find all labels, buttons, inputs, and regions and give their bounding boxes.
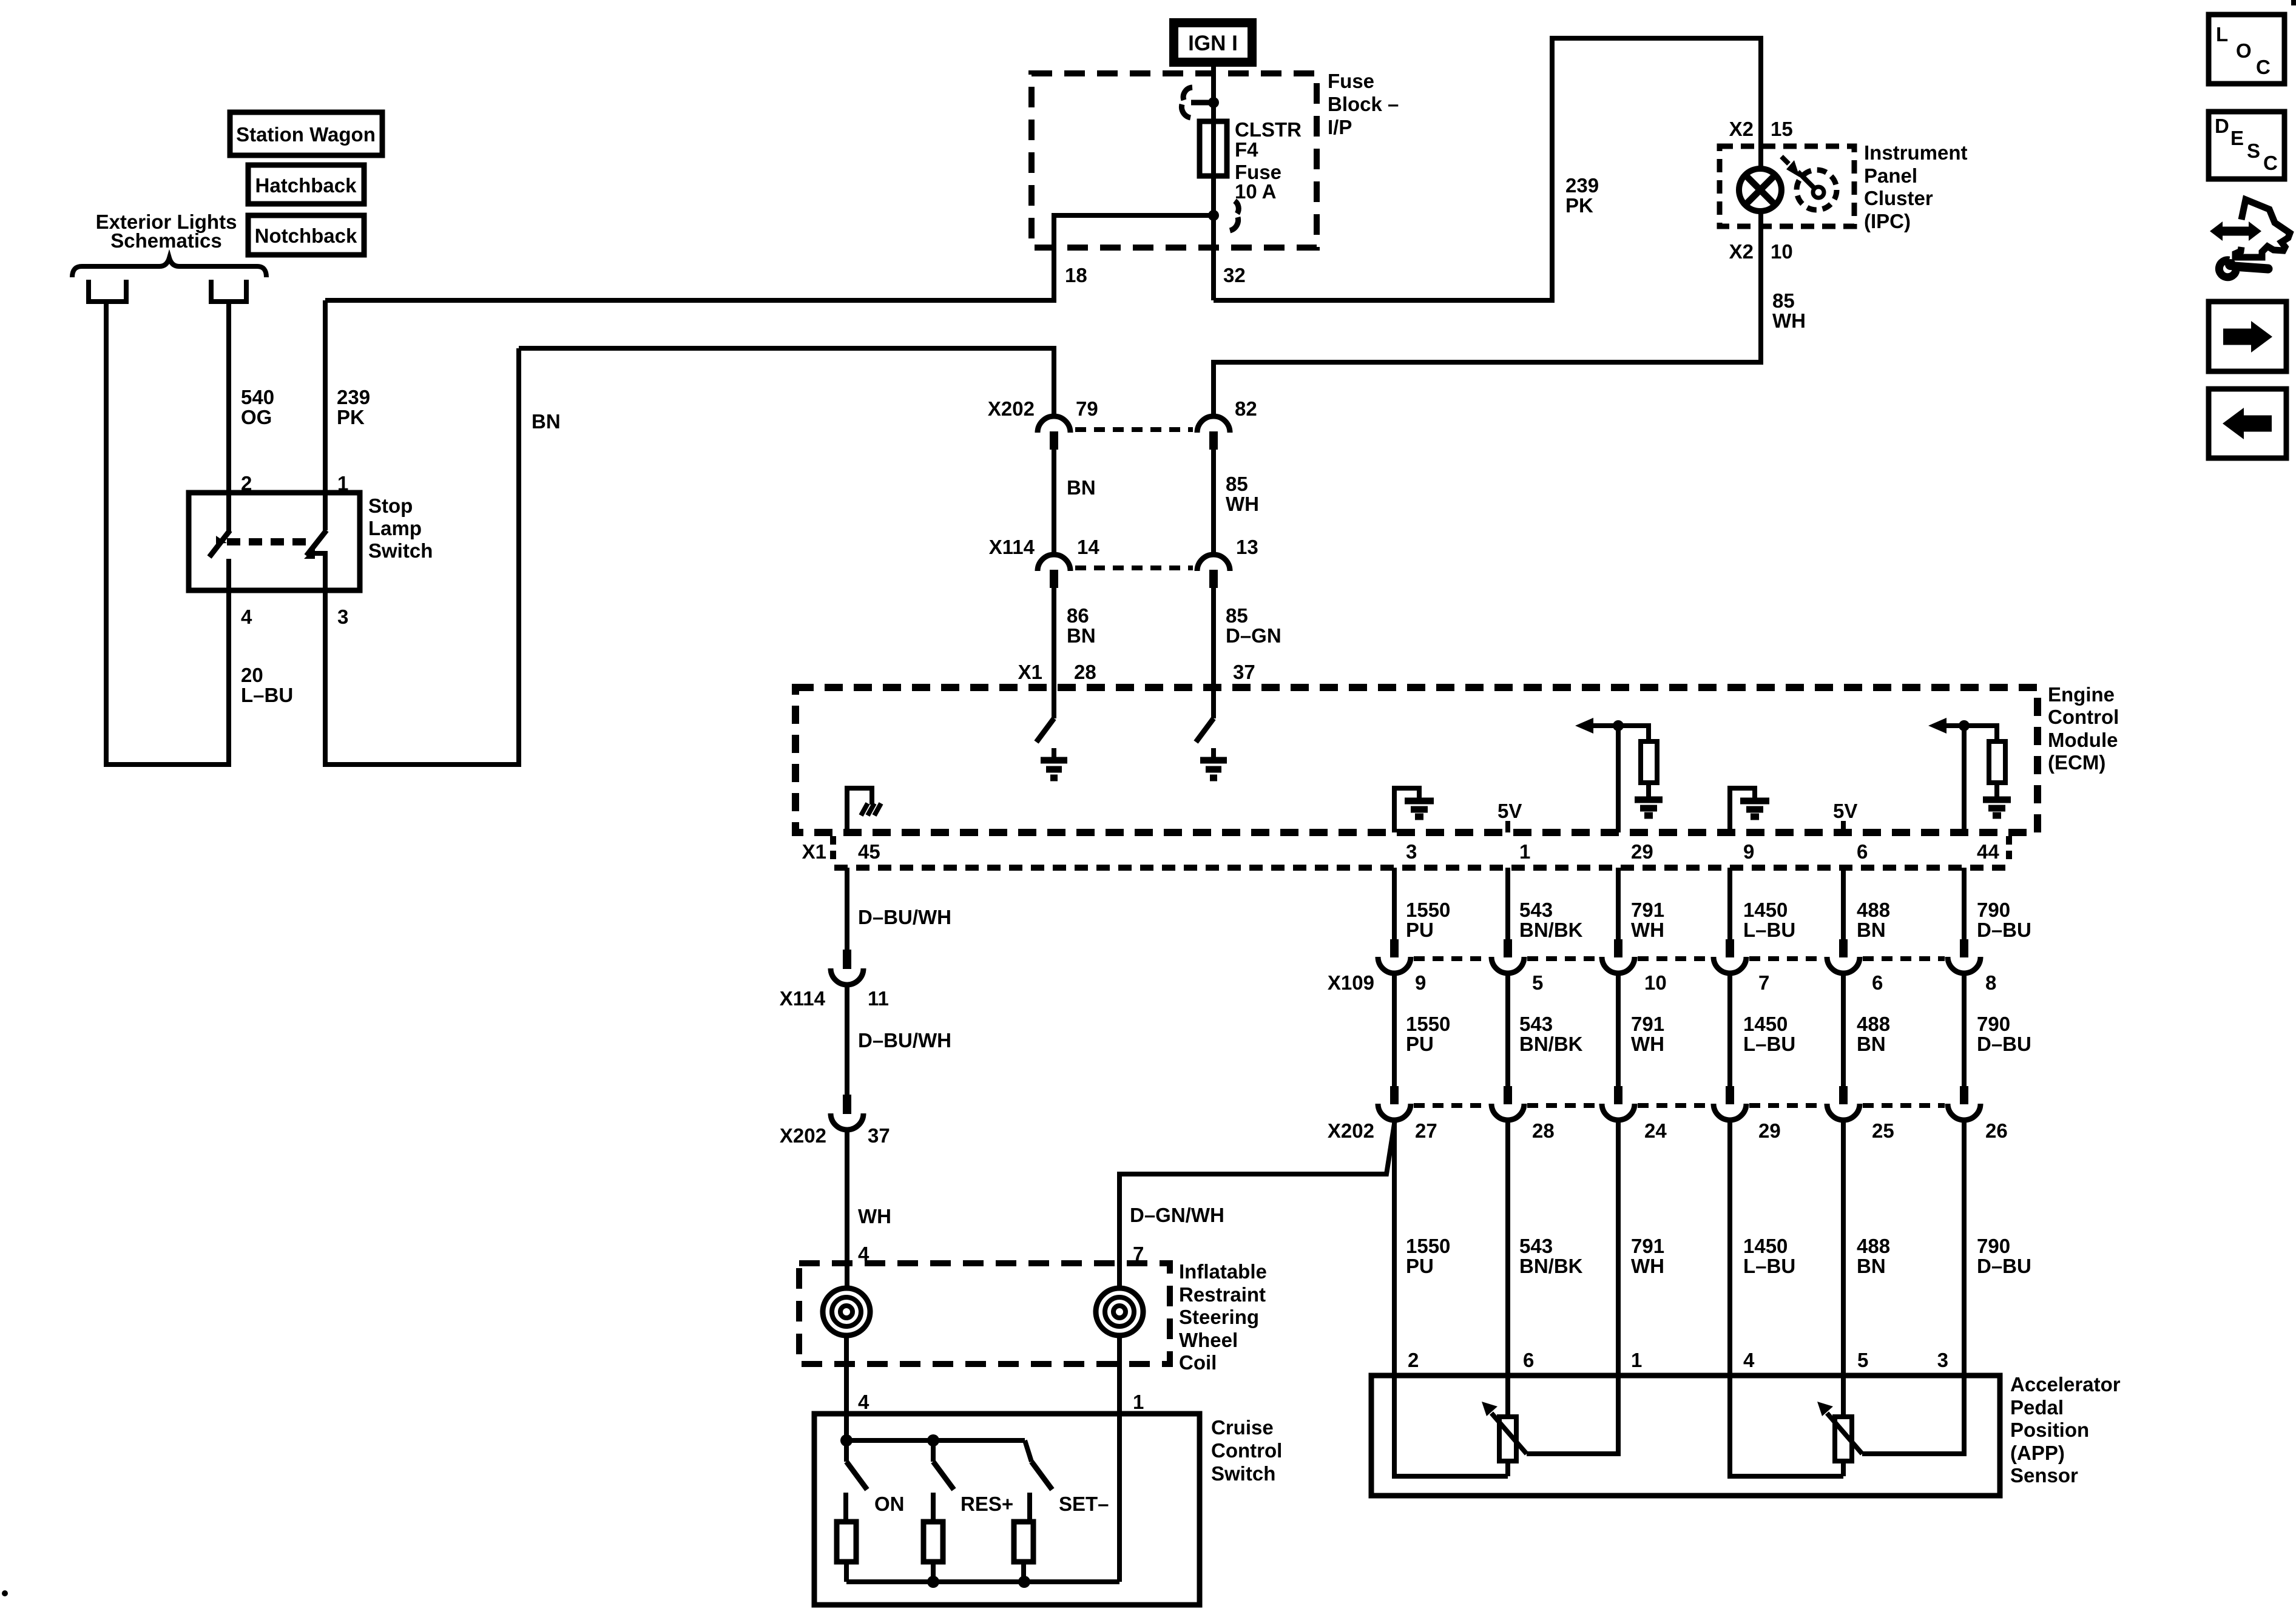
svg-text:D–GN: D–GN — [1226, 624, 1281, 647]
ground (pin 37 sense) — [1211, 748, 1216, 760]
svg-text:791: 791 — [1631, 1235, 1664, 1257]
wire 790 D-BU X109-8 to X202-26 — [1962, 973, 1967, 1095]
svg-text:S: S — [2247, 140, 2260, 162]
fuse block I/P dashed box — [1032, 73, 1317, 248]
svg-text:29: 29 — [1631, 840, 1653, 863]
wire fuse to pin 18 — [325, 215, 1214, 300]
svg-text:BN: BN — [1857, 919, 1886, 941]
svg-text:D–BU: D–BU — [1977, 919, 2031, 941]
dashed link X114 14-13 — [1075, 565, 1193, 570]
coil spiral right — [1096, 1288, 1143, 1335]
ECM internal switch at pin 28 — [1036, 718, 1054, 742]
junction dot — [927, 1434, 939, 1447]
stop lamp switch wedge right — [304, 548, 315, 559]
svg-text:28: 28 — [1532, 1119, 1555, 1142]
LOC icon box — [2209, 15, 2284, 84]
wire 791 WH X1-29 to X109-10 — [1616, 868, 1621, 948]
wire D-BU/WH X114-11 to X202-37 — [845, 985, 849, 1095]
gauge pointer arrow — [1781, 157, 1789, 164]
wire 791 WH X109-10 to X202-24 — [1616, 973, 1621, 1095]
svg-text:1550: 1550 — [1406, 1013, 1450, 1035]
svg-text:Restraint: Restraint — [1179, 1283, 1266, 1306]
junction dot — [927, 1576, 939, 1588]
svg-text:Panel: Panel — [1864, 164, 1917, 187]
wire IPC X2 10 to X202 pin 82 — [1214, 211, 1761, 419]
fuse clip bottom — [1235, 201, 1238, 214]
ground (pin 29) — [1635, 800, 1663, 815]
svg-text:Schematics: Schematics — [110, 229, 221, 252]
svg-text:Block –: Block – — [1328, 93, 1399, 115]
forward arrow icon box — [2209, 302, 2286, 371]
accelerator pedal position sensor box — [1371, 1376, 2000, 1496]
box Notchback — [248, 215, 364, 255]
svg-text:3: 3 — [337, 606, 348, 628]
wire 543 BN/BK X1-1 to X109-5 — [1505, 868, 1510, 948]
svg-text:BN: BN — [1857, 1033, 1886, 1055]
svg-text:ON: ON — [874, 1493, 905, 1515]
svg-text:WH: WH — [858, 1205, 891, 1227]
wire 20 L-BU loop (stop lamp pin 4 to exterior lights) — [106, 302, 229, 765]
svg-text:82: 82 — [1235, 397, 1257, 420]
ECM pin 9 wire to ground — [1730, 788, 1755, 832]
svg-text:540: 540 — [241, 386, 274, 408]
svg-text:Module: Module — [2048, 729, 2118, 751]
connector X202 pin 28 — [1504, 1086, 1512, 1104]
svg-text:3: 3 — [1406, 840, 1417, 863]
svg-text:1550: 1550 — [1406, 1235, 1450, 1257]
svg-text:44: 44 — [1977, 840, 1999, 863]
svg-text:79: 79 — [1076, 397, 1098, 420]
svg-text:791: 791 — [1631, 899, 1664, 921]
svg-text:6: 6 — [1523, 1349, 1534, 1371]
svg-text:X202: X202 — [1328, 1119, 1374, 1142]
svg-text:L–BU: L–BU — [1743, 1033, 1795, 1055]
stop lamp switch blade left — [209, 530, 230, 557]
connector X202 pin 27 — [1390, 1086, 1399, 1104]
svg-text:WH: WH — [1631, 1255, 1664, 1277]
svg-text:D–BU/WH: D–BU/WH — [858, 1029, 951, 1052]
svg-text:X114: X114 — [989, 536, 1035, 558]
connector X114 pin 14 (dome + pin) — [1038, 555, 1070, 571]
svg-text:10 A: 10 A — [1235, 180, 1276, 203]
wire 1450 L-BU X109-7 to X202-29 — [1727, 973, 1732, 1095]
svg-text:Sensor: Sensor — [2010, 1464, 2078, 1487]
svg-text:X2: X2 — [1729, 240, 1754, 263]
svg-text:X109: X109 — [1328, 971, 1374, 994]
svg-text:D–BU/WH: D–BU/WH — [858, 906, 951, 928]
cruise internal bottom bus — [846, 1579, 1119, 1584]
page artifact mark top right — [2291, 0, 2296, 5]
connector X202 pin 25 — [1839, 1086, 1848, 1104]
ground (pin 28 sense) — [1052, 748, 1056, 760]
svg-text:29: 29 — [1758, 1119, 1781, 1142]
connector X202 pin 26 — [1960, 1086, 1968, 1104]
svg-text:6: 6 — [1857, 840, 1868, 863]
svg-text:RES+: RES+ — [961, 1493, 1013, 1515]
svg-text:Engine: Engine — [2048, 683, 2115, 706]
wire 790 D-BU X202-26 to APP pin 3 — [1962, 1120, 1967, 1376]
svg-text:5V: 5V — [1497, 800, 1522, 822]
svg-text:Pedal: Pedal — [2010, 1396, 2064, 1419]
svg-text:85: 85 — [1772, 289, 1795, 312]
svg-text:86: 86 — [1067, 604, 1089, 627]
svg-text:Control: Control — [2048, 706, 2119, 728]
stop lamp switch box — [189, 493, 360, 590]
ground (pin 44) — [1983, 800, 2011, 815]
svg-text:790: 790 — [1977, 1013, 2010, 1035]
diagnostic tool icon (double arrow, outline, wrench) — [2221, 227, 2250, 236]
svg-text:BN: BN — [1067, 624, 1096, 647]
svg-text:WH: WH — [1772, 309, 1806, 332]
svg-text:18: 18 — [1065, 264, 1087, 286]
svg-text:85: 85 — [1226, 604, 1248, 627]
svg-text:Fuse: Fuse — [1328, 70, 1374, 92]
svg-text:PU: PU — [1406, 919, 1434, 941]
svg-text:13: 13 — [1236, 536, 1258, 558]
svg-text:10: 10 — [1771, 240, 1793, 263]
svg-text:L–BU: L–BU — [1743, 919, 1795, 941]
svg-text:488: 488 — [1857, 899, 1890, 921]
APP pot 2 feed wires — [1730, 1376, 1843, 1476]
svg-text:24: 24 — [1644, 1119, 1667, 1142]
svg-text:L–BU: L–BU — [241, 684, 293, 706]
wire 543 BN/BK X202-28 to APP pin 6 — [1505, 1120, 1510, 1376]
svg-text:1450: 1450 — [1743, 1235, 1788, 1257]
svg-text:(ECM): (ECM) — [2048, 751, 2105, 774]
branch wire X202-27 to cruise circuit (D-GN/WH) — [1119, 1120, 1395, 1289]
svg-text:1: 1 — [1133, 1391, 1144, 1413]
svg-text:Inflatable: Inflatable — [1179, 1260, 1267, 1283]
stop lamp switch contact right — [309, 553, 325, 590]
svg-text:5: 5 — [1857, 1349, 1868, 1371]
ECM pin 6 5V supply — [1841, 821, 1846, 832]
cruise internal top bus — [846, 1438, 1025, 1443]
svg-text:WH: WH — [1631, 1033, 1664, 1055]
svg-text:BN/BK: BN/BK — [1519, 1033, 1583, 1055]
svg-text:X1: X1 — [802, 840, 826, 863]
svg-text:Cruise: Cruise — [1211, 1416, 1274, 1439]
resistor RES+ — [923, 1522, 943, 1562]
switch ON — [844, 1440, 849, 1462]
page artifact dot bottom left — [2, 1590, 8, 1596]
wire stop lamp pin 3 to BN riser — [325, 348, 519, 765]
wire pin 32 to IPC X2 15 — [1214, 38, 1761, 300]
svg-text:PK: PK — [1565, 194, 1593, 217]
resistor (pin 29) — [1641, 741, 1657, 783]
svg-text:C: C — [2256, 56, 2271, 78]
connector X109 pin 10 — [1614, 939, 1622, 957]
svg-text:X202: X202 — [988, 397, 1035, 420]
wire BN X202-79 to X114-14 — [1052, 450, 1056, 557]
wire 85 WH X202-82 to X114-13 — [1211, 450, 1216, 557]
fuse clip top — [1191, 100, 1213, 106]
svg-text:2: 2 — [1408, 1349, 1419, 1371]
svg-text:Cluster: Cluster — [1864, 187, 1933, 209]
ECM pin 29 sense: arrow + pull resistor to ground — [1616, 726, 1621, 832]
svg-text:4: 4 — [858, 1391, 869, 1413]
speedometer gauge symbol — [1797, 170, 1837, 210]
svg-text:1450: 1450 — [1743, 899, 1788, 921]
svg-text:D–BU: D–BU — [1977, 1255, 2031, 1277]
ground (pin 3) — [1405, 801, 1434, 817]
X1 connector strip lower line — [834, 865, 2009, 871]
svg-text:X1: X1 — [1018, 661, 1042, 683]
svg-text:OG: OG — [241, 406, 272, 428]
junction dot — [840, 1434, 853, 1447]
svg-text:488: 488 — [1857, 1013, 1890, 1035]
box Hatchback — [248, 165, 364, 204]
ground (pin 9) — [1740, 801, 1769, 817]
svg-text:5V: 5V — [1833, 800, 1857, 822]
wire 85 D-GN X114-13 to ECM X1-37 — [1211, 588, 1216, 718]
wire 543 BN/BK X109-5 to X202-28 — [1505, 973, 1510, 1095]
svg-text:Position: Position — [2010, 1419, 2089, 1441]
svg-text:26: 26 — [1985, 1119, 2008, 1142]
ECM pin 3 wire to ground — [1394, 788, 1419, 832]
brace over exterior lights connectors — [72, 258, 266, 277]
junction dot fuse top — [1208, 97, 1219, 108]
wire IGN I into fuse block — [1211, 67, 1216, 300]
svg-text:791: 791 — [1631, 1013, 1664, 1035]
wire 1550 PU X202-27 to APP pin 2 — [1392, 1120, 1397, 1376]
svg-text:BN: BN — [1067, 476, 1096, 499]
svg-text:20: 20 — [241, 664, 263, 686]
svg-text:15: 15 — [1771, 118, 1793, 140]
DESC icon box — [2209, 112, 2284, 179]
coil spiral left — [823, 1288, 870, 1335]
svg-text:37: 37 — [868, 1124, 890, 1147]
svg-text:Lamp: Lamp — [368, 517, 422, 539]
wire coil pin 1 down to cruise switch — [1117, 1334, 1122, 1582]
svg-text:Notchback: Notchback — [255, 224, 357, 247]
dashed links X109 row — [1414, 956, 1945, 961]
svg-text:Accelerator: Accelerator — [2010, 1373, 2121, 1396]
potentiometer 1 — [1499, 1417, 1516, 1461]
stop lamp switch wedge left — [216, 536, 227, 544]
resistor ON — [837, 1522, 856, 1562]
svg-text:F4: F4 — [1235, 138, 1258, 161]
connector X114 pin 11 (stub + cup) — [843, 950, 851, 969]
svg-text:790: 790 — [1977, 899, 2010, 921]
svg-text:488: 488 — [1857, 1235, 1890, 1257]
svg-text:BN: BN — [532, 410, 561, 433]
svg-text:27: 27 — [1415, 1119, 1437, 1142]
svg-text:C: C — [2263, 152, 2278, 174]
svg-text:543: 543 — [1519, 899, 1553, 921]
svg-text:1450: 1450 — [1743, 1013, 1788, 1035]
svg-text:BN/BK: BN/BK — [1519, 1255, 1583, 1277]
svg-text:X202: X202 — [780, 1124, 826, 1147]
svg-text:(APP): (APP) — [2010, 1442, 2065, 1464]
connector X202 pin 24 — [1614, 1086, 1622, 1104]
svg-text:SET–: SET– — [1059, 1493, 1109, 1515]
svg-text:5: 5 — [1532, 971, 1543, 994]
svg-text:Control: Control — [1211, 1439, 1282, 1462]
wire D-BU/WH X1-45 to X114-11 — [845, 868, 849, 950]
svg-text:O: O — [2236, 39, 2252, 62]
IGN I feed box — [1169, 18, 1257, 67]
connector X109 pin 6 — [1839, 939, 1848, 957]
svg-text:8: 8 — [1985, 971, 1996, 994]
svg-text:X2: X2 — [1729, 118, 1754, 140]
svg-text:WH: WH — [1631, 919, 1664, 941]
wire 86 BN X114-14 to ECM X1-28 — [1052, 588, 1056, 718]
connector bracket U2 — [211, 280, 246, 302]
wire WH X202-37 to coil pin 4 — [845, 1130, 849, 1289]
svg-text:37: 37 — [1233, 661, 1255, 683]
svg-text:Stop: Stop — [368, 495, 413, 517]
stop lamp switch blade right — [306, 530, 326, 556]
svg-text:BN: BN — [1857, 1255, 1886, 1277]
svg-text:6: 6 — [1872, 971, 1883, 994]
svg-text:239: 239 — [337, 386, 370, 408]
svg-text:IGN I: IGN I — [1188, 32, 1238, 55]
svg-text:14: 14 — [1077, 536, 1099, 558]
potentiometer 2 — [1835, 1417, 1852, 1461]
ECM pin 45 wire to chassis ground — [847, 788, 872, 832]
connector X202 pin 79 (dome + pin) — [1038, 416, 1070, 433]
svg-text:3: 3 — [1937, 1349, 1948, 1371]
connector X109 pin 9 — [1390, 939, 1399, 957]
svg-text:790: 790 — [1977, 1235, 2010, 1257]
wire 1450 L-BU X1-9 to X109-7 — [1727, 868, 1732, 948]
cruise control switch box — [814, 1414, 1200, 1605]
cruise indicator lamp — [1739, 169, 1781, 211]
wire BN bus to X202 pin 79 — [519, 348, 1054, 419]
svg-text:1550: 1550 — [1406, 899, 1450, 921]
resistor SET- — [1014, 1522, 1033, 1562]
svg-text:28: 28 — [1074, 661, 1096, 683]
chassis ground (hatched) — [861, 803, 881, 815]
svg-text:D: D — [2215, 115, 2229, 137]
svg-text:Switch: Switch — [368, 539, 433, 562]
svg-text:1: 1 — [1519, 840, 1530, 863]
ECM internal switch at pin 37 — [1196, 718, 1214, 742]
svg-text:Hatchback: Hatchback — [255, 174, 357, 197]
svg-text:32: 32 — [1223, 264, 1246, 286]
svg-text:Coil: Coil — [1179, 1351, 1217, 1374]
svg-text:E: E — [2230, 127, 2244, 149]
wire 790 D-BU X1-44 to X109-8 — [1962, 868, 1967, 948]
svg-text:1: 1 — [1631, 1349, 1642, 1371]
engine control module dashed box — [795, 687, 2038, 832]
svg-text:L–BU: L–BU — [1743, 1255, 1795, 1277]
svg-text:Station Wagon: Station Wagon — [236, 123, 376, 146]
box Station Wagon — [230, 112, 382, 155]
APP pot 1 feed wires — [1394, 1376, 1508, 1476]
svg-text:X114: X114 — [780, 987, 826, 1010]
svg-text:7: 7 — [1758, 971, 1769, 994]
svg-text:9: 9 — [1415, 971, 1426, 994]
svg-text:239: 239 — [1565, 174, 1599, 197]
wire 488 BN X1-6 to X109-6 — [1841, 868, 1846, 948]
ECM pin 44 sense: arrow + pull resistor to ground — [1962, 726, 1967, 832]
connector X202 pin 82 (dome + pin) — [1197, 416, 1230, 433]
connector X202 pin 29 — [1726, 1086, 1734, 1104]
instrument panel cluster dashed box — [1720, 146, 1854, 226]
svg-text:Steering: Steering — [1179, 1306, 1259, 1328]
svg-text:Switch: Switch — [1211, 1462, 1275, 1485]
svg-text:PU: PU — [1406, 1033, 1434, 1055]
dashed link X202 79-82 — [1075, 427, 1193, 432]
svg-text:BN/BK: BN/BK — [1519, 919, 1583, 941]
wiper 2 (to pin 3) — [1862, 1376, 1964, 1454]
connector X202 pin 37 (stub + cup) — [843, 1095, 851, 1114]
wire coil pin 4 down to cruise switch — [844, 1334, 849, 1446]
wire 1450 L-BU X202-29 to APP pin 4 — [1727, 1120, 1732, 1376]
wire 488 BN X109-6 to X202-25 — [1841, 973, 1846, 1095]
switch SET- — [1025, 1440, 1032, 1462]
wire 1550 PU X109-9 to X202-27 — [1392, 973, 1397, 1095]
wire 791 WH X202-24 to APP pin 1 — [1616, 1120, 1621, 1376]
junction dot — [1018, 1576, 1030, 1588]
stop lamp switch linkage dashed — [227, 538, 314, 545]
svg-text:D–GN/WH: D–GN/WH — [1130, 1204, 1224, 1226]
switch RES+ — [931, 1440, 936, 1462]
wiper 1 (to pin 1) — [1527, 1376, 1618, 1454]
resistor (pin 44) — [1989, 741, 2005, 783]
svg-text:4: 4 — [241, 606, 252, 628]
connector X109 pin 8 — [1960, 939, 1968, 957]
svg-text:L: L — [2216, 23, 2228, 46]
connector X109 pin 7 — [1726, 939, 1734, 957]
svg-text:9: 9 — [1743, 840, 1754, 863]
wire 1550 PU X1-3 to X109-9 — [1392, 868, 1397, 948]
inflatable restraint steering wheel coil dashed box — [799, 1263, 1170, 1364]
svg-text:25: 25 — [1872, 1119, 1894, 1142]
ECM pin 1 5V supply — [1505, 821, 1510, 832]
svg-text:85: 85 — [1226, 473, 1248, 495]
svg-text:CLSTR: CLSTR — [1235, 118, 1302, 141]
svg-text:Instrument: Instrument — [1864, 141, 1968, 164]
connector X114 pin 13 (dome + pin) — [1197, 555, 1230, 571]
svg-text:PU: PU — [1406, 1255, 1434, 1277]
svg-text:10: 10 — [1644, 971, 1667, 994]
svg-text:4: 4 — [1743, 1349, 1755, 1371]
connector bracket U1 — [89, 280, 126, 302]
svg-text:PK: PK — [337, 406, 365, 428]
wire 239 PK (fuse 18 feed down to stop lamp pin 1) — [323, 300, 328, 530]
wire 488 BN X202-25 to APP pin 5 — [1841, 1120, 1846, 1376]
svg-text:WH: WH — [1226, 493, 1259, 515]
wire 540 OG (exterior lights to stop lamp pin 2) — [226, 302, 231, 532]
svg-text:543: 543 — [1519, 1235, 1553, 1257]
fuse CLSTR F4 10A — [1200, 121, 1227, 176]
svg-text:Wheel: Wheel — [1179, 1329, 1238, 1351]
svg-text:11: 11 — [868, 987, 889, 1010]
svg-text:543: 543 — [1519, 1013, 1553, 1035]
svg-text:D–BU: D–BU — [1977, 1033, 2031, 1055]
svg-text:I/P: I/P — [1328, 116, 1352, 138]
connector X109 pin 5 — [1504, 939, 1512, 957]
back arrow icon box — [2209, 389, 2286, 458]
junction dot fuse bottom — [1208, 210, 1219, 221]
svg-text:(IPC): (IPC) — [1864, 210, 1911, 232]
svg-text:45: 45 — [858, 840, 880, 863]
dashed links X202 row — [1414, 1103, 1945, 1108]
